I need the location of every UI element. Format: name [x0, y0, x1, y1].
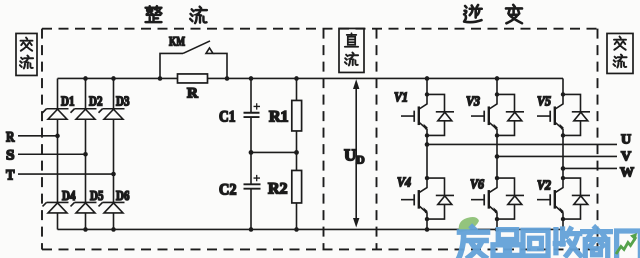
node: U junction [425, 142, 430, 147]
svg-text:R: R [187, 85, 198, 101]
dashed bottom line [42, 248, 598, 250]
svg-text:V6: V6 [470, 177, 484, 192]
wire: output W [563, 167, 617, 169]
contactor KM contact triangle [206, 48, 213, 54]
node: KM left on bus [158, 76, 163, 81]
node: V1 top bus [425, 76, 430, 81]
wire: output U [427, 143, 617, 145]
dashed right edge of rectifier box [323, 29, 325, 250]
svg-text:D1: D1 [61, 93, 75, 108]
wire: phase T [18, 173, 114, 175]
capacitor C2 polarity + [254, 175, 261, 181]
IGBT V3 (with anti-parallel diode) [471, 92, 524, 137]
resistor R (charging) [178, 74, 208, 83]
IGBT V4 (with anti-parallel diode) [401, 176, 454, 221]
diode D5 [71, 202, 97, 213]
svg-text:D6: D6 [116, 188, 130, 203]
node: S junction [83, 152, 88, 157]
node: C1 bottom [249, 150, 254, 155]
node: top bus col3 [111, 76, 116, 81]
wire: mid rail [251, 151, 297, 153]
svg-text:V: V [621, 149, 631, 164]
title 整流 (rectifier) [146, 6, 207, 23]
UD measurement arrow [355, 84, 357, 218]
svg-text:KM: KM [169, 33, 185, 48]
node: T junction [111, 172, 116, 177]
node: bottom bus col3 [111, 227, 116, 232]
capacitor C2 plates [244, 184, 261, 188]
svg-text:C1: C1 [219, 108, 236, 125]
wire: output V [497, 155, 617, 157]
capacitor C1 polarity + [254, 103, 261, 109]
wire: bridge column 3 [113, 78, 115, 229]
wire: V5-V2 mid column [562, 135, 564, 178]
AC label box left (交流) [16, 33, 37, 75]
svg-text:W: W [620, 165, 634, 180]
node: R2 bottom [294, 227, 299, 232]
contactor KM switch blade [183, 41, 210, 54]
svg-text:V3: V3 [466, 94, 480, 109]
svg-text:R: R [6, 129, 15, 145]
svg-text:U: U [344, 145, 356, 164]
diode D6 [99, 202, 125, 213]
wire: V6 bottom stub [496, 219, 498, 229]
svg-text:D: D [356, 152, 365, 166]
wire: bridge column 2 [85, 78, 87, 229]
node: R1 top [294, 76, 299, 81]
node: R1 bottom [294, 150, 299, 155]
svg-text:R2: R2 [268, 180, 288, 197]
wire: DC+ top bus [58, 77, 564, 79]
node: C1 top [249, 76, 254, 81]
svg-text:R1: R1 [269, 108, 289, 125]
wire: V3 column top stub [496, 78, 498, 94]
title 逆变 (inverter) [464, 5, 522, 23]
node: C2 bottom [249, 227, 254, 232]
node: V4 bottom bus [425, 227, 430, 232]
svg-text:T: T [6, 167, 15, 183]
resistor R2 [296, 152, 298, 229]
diode D4 [43, 202, 69, 213]
dashed box: rectifier + inverter shared top line [42, 28, 598, 30]
node: top bus col2 [83, 76, 88, 81]
capacitor C1 plates [244, 113, 260, 117]
node: KM right on bus [225, 76, 230, 81]
IGBT V1 (with anti-parallel diode) [401, 92, 454, 137]
diode D3 [99, 109, 125, 120]
node: V junction [495, 154, 500, 159]
capacitor C1 leads [250, 78, 252, 152]
wire: V4 bottom stub [426, 219, 428, 229]
svg-text:V4: V4 [397, 175, 411, 190]
wire: V2 bottom stub [562, 219, 564, 229]
diode D2 [71, 109, 97, 120]
svg-text:D3: D3 [116, 93, 130, 108]
node: V6 bottom bus [495, 227, 500, 232]
svg-text:U: U [621, 132, 631, 147]
wire: DC- bottom bus [58, 228, 564, 230]
watermark leaf [459, 217, 479, 232]
wire: V1-V4 mid column [426, 135, 428, 178]
watermark chart arrow [616, 237, 636, 254]
svg-text:D4: D4 [62, 188, 76, 203]
wire: V1 column top stub [426, 78, 428, 94]
DC label box (直流) [339, 28, 364, 72]
diode D1 [43, 109, 69, 120]
svg-text:S: S [6, 147, 15, 163]
AC label box right (交流) [607, 33, 633, 73]
wire: phase S [18, 153, 86, 155]
capacitor C2 leads [250, 152, 252, 229]
IGBT V5 (with anti-parallel diode) [537, 92, 590, 137]
watermark text 废品回收商网 [459, 227, 640, 258]
IGBT V2 (with anti-parallel diode) [537, 176, 590, 221]
wire: phase R [18, 135, 58, 137]
node: W junction [561, 166, 566, 171]
node: R junction [55, 134, 60, 139]
dashed left edge of inverter box [376, 29, 378, 250]
wire: bridge column 1 [57, 78, 59, 229]
contactor KM bypass loop wires [160, 53, 227, 78]
dashed left edge of rectifier box [41, 29, 43, 250]
svg-text:V2: V2 [537, 178, 551, 193]
svg-text:V1: V1 [394, 90, 408, 105]
svg-text:C2: C2 [219, 181, 237, 198]
IGBT V6 (with anti-parallel diode) [471, 176, 524, 221]
svg-text:D5: D5 [90, 188, 104, 203]
resistor R1 [296, 78, 298, 152]
dashed right edge of inverter box [597, 29, 599, 250]
svg-text:D2: D2 [89, 93, 103, 108]
node: V3 top bus [495, 76, 500, 81]
wire: V3-V6 mid column [496, 135, 498, 178]
node: bottom bus col2 [83, 227, 88, 232]
svg-text:V5: V5 [537, 94, 551, 109]
wire: V5 column top stub [562, 78, 564, 94]
